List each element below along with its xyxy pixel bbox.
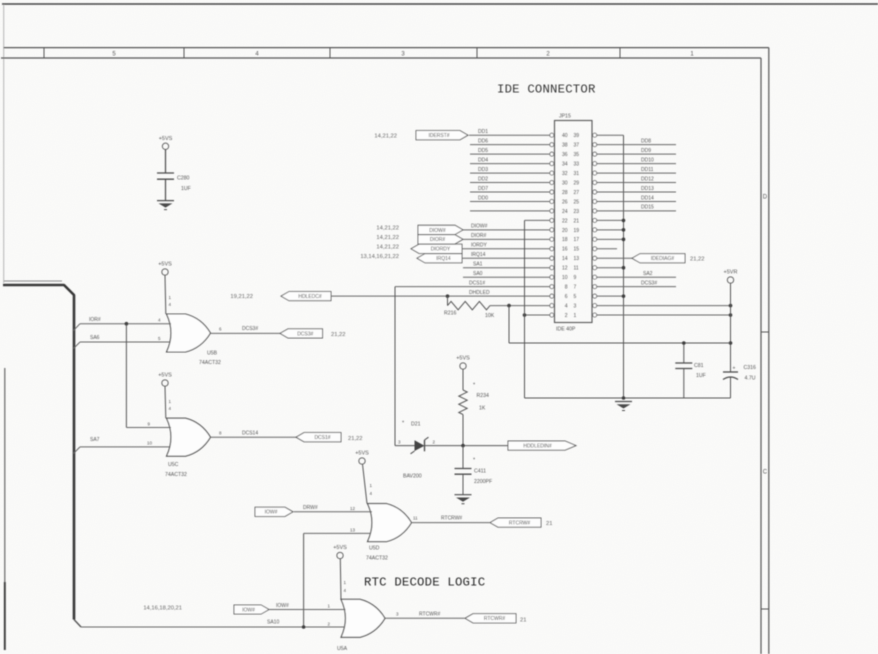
svg-text:DD9: DD9 [641, 148, 651, 154]
svg-text:+5VS: +5VS [456, 356, 470, 362]
svg-text:4: 4 [565, 303, 568, 309]
svg-text:29: 29 [574, 180, 580, 186]
svg-text:DHDLED: DHDLED [469, 290, 490, 296]
svg-text:DD8: DD8 [641, 138, 651, 144]
svg-text:11: 11 [413, 516, 418, 521]
svg-text:C: C [763, 470, 768, 476]
svg-text:RTC DECODE LOGIC: RTC DECODE LOGIC [364, 576, 485, 590]
svg-text:12: 12 [350, 506, 356, 511]
svg-text:IORDY: IORDY [471, 243, 488, 249]
svg-text:DD7: DD7 [478, 186, 488, 192]
svg-text:IDERST#: IDERST# [428, 133, 449, 139]
svg-text:25: 25 [574, 199, 580, 205]
svg-text:U5B: U5B [207, 351, 218, 357]
svg-text:21,22: 21,22 [331, 332, 346, 338]
svg-text:22: 22 [562, 218, 568, 224]
svg-text:1K: 1K [479, 406, 486, 412]
svg-text:HDDLEDIN#: HDDLEDIN# [523, 444, 552, 450]
svg-text:74ACT32: 74ACT32 [199, 360, 221, 366]
svg-text:C411: C411 [474, 469, 486, 475]
svg-text:RTCWR#: RTCWR# [484, 616, 506, 622]
svg-text:14,21,22: 14,21,22 [374, 134, 397, 140]
svg-text:DCS3#: DCS3# [641, 280, 657, 286]
svg-text:30: 30 [562, 180, 568, 186]
svg-text:31: 31 [574, 171, 580, 177]
svg-text:DIOW#: DIOW# [429, 228, 446, 234]
svg-text:+5VS: +5VS [158, 373, 172, 379]
svg-text:SA7: SA7 [90, 437, 100, 443]
svg-text:4.7U: 4.7U [745, 376, 756, 382]
svg-text:2200PF: 2200PF [474, 479, 492, 485]
svg-text:SA6: SA6 [90, 335, 100, 341]
svg-text:14,16,18,20,21: 14,16,18,20,21 [143, 606, 182, 612]
svg-text:IDE 40P: IDE 40P [556, 327, 576, 333]
svg-text:DD0: DD0 [478, 195, 488, 201]
svg-text:DCS14: DCS14 [242, 431, 258, 437]
svg-text:DD13: DD13 [641, 186, 654, 192]
svg-text:13: 13 [350, 528, 356, 533]
svg-text:14: 14 [562, 256, 568, 262]
svg-text:DCS1#: DCS1# [314, 435, 330, 441]
svg-text:13,14,16,21,22: 13,14,16,21,22 [360, 254, 399, 260]
svg-text:37: 37 [574, 143, 580, 149]
svg-text:RTCRW#: RTCRW# [509, 521, 530, 527]
svg-text:18: 18 [562, 237, 568, 243]
svg-text:+5VS: +5VS [355, 451, 369, 457]
svg-text:U5D: U5D [369, 546, 380, 552]
svg-text:12: 12 [562, 266, 568, 272]
svg-text:14,21,22: 14,21,22 [376, 235, 399, 241]
svg-text:17: 17 [574, 237, 580, 243]
svg-text:+: + [733, 366, 736, 372]
svg-text:74ACT32: 74ACT32 [366, 556, 388, 562]
svg-text:10K: 10K [485, 313, 495, 319]
svg-text:32: 32 [562, 171, 568, 177]
svg-text:23: 23 [574, 209, 580, 215]
svg-text:19: 19 [574, 228, 580, 234]
svg-text:21: 21 [520, 618, 526, 624]
svg-text:5: 5 [574, 294, 577, 300]
svg-text:14,21,22: 14,21,22 [376, 225, 399, 231]
svg-text:DD10: DD10 [641, 157, 654, 163]
svg-text:DCS1#: DCS1# [469, 280, 485, 286]
svg-text:16: 16 [562, 247, 568, 253]
svg-text:IOW#: IOW# [276, 603, 289, 609]
svg-text:IRQ14: IRQ14 [436, 256, 451, 262]
svg-text:26: 26 [562, 199, 568, 205]
svg-text:+5VS: +5VS [333, 545, 347, 551]
svg-text:13: 13 [574, 256, 580, 262]
svg-text:DD6: DD6 [478, 138, 488, 144]
svg-text:33: 33 [574, 161, 580, 167]
svg-text:HDLEDC#: HDLEDC# [298, 294, 322, 300]
svg-text:7: 7 [574, 285, 577, 291]
svg-text:DD15: DD15 [641, 205, 654, 211]
svg-text:40: 40 [562, 133, 568, 139]
svg-text:19,21,22: 19,21,22 [230, 294, 253, 300]
svg-text:21,22: 21,22 [690, 257, 705, 263]
svg-text:DCS3#: DCS3# [242, 326, 258, 332]
svg-text:C280: C280 [177, 176, 190, 182]
svg-text:28: 28 [562, 190, 568, 196]
svg-text:IDE CONNECTOR: IDE CONNECTOR [497, 83, 596, 97]
svg-text:IOW#: IOW# [265, 510, 278, 516]
svg-text:39: 39 [574, 133, 580, 139]
svg-text:27: 27 [574, 190, 580, 196]
svg-text:34: 34 [562, 161, 568, 167]
svg-text:38: 38 [562, 143, 568, 149]
svg-text:SA10: SA10 [267, 620, 279, 626]
svg-text:10: 10 [147, 441, 153, 446]
svg-text:DD5: DD5 [478, 148, 488, 154]
svg-text:DCS3#: DCS3# [297, 331, 313, 337]
svg-text:21: 21 [546, 521, 552, 527]
svg-text:10: 10 [562, 275, 568, 281]
svg-text:11: 11 [574, 266, 579, 272]
svg-text:9: 9 [574, 275, 577, 281]
svg-text:21: 21 [574, 218, 580, 224]
svg-text:DIOR#: DIOR# [430, 237, 446, 243]
svg-text:24: 24 [562, 209, 568, 215]
svg-text:DD2: DD2 [478, 176, 488, 182]
svg-text:35: 35 [574, 152, 580, 158]
svg-text:C316: C316 [744, 365, 757, 371]
svg-text:U5C: U5C [168, 462, 179, 468]
svg-text:+5VS: +5VS [158, 262, 172, 268]
svg-text:SA0: SA0 [473, 271, 483, 277]
svg-text:DD11: DD11 [641, 167, 654, 173]
svg-text:DD12: DD12 [641, 176, 654, 182]
svg-text:+5VS: +5VS [159, 136, 173, 142]
svg-text:DIOR#: DIOR# [471, 233, 487, 239]
svg-text:BAV200: BAV200 [403, 474, 422, 480]
svg-text:RTCWR#: RTCWR# [419, 612, 441, 618]
svg-text:8: 8 [565, 285, 568, 291]
svg-text:DD4: DD4 [478, 157, 488, 163]
svg-text:1: 1 [574, 313, 577, 319]
svg-text:D: D [763, 194, 768, 200]
svg-text:SA2: SA2 [643, 271, 653, 277]
svg-text:R234: R234 [477, 393, 490, 399]
svg-text:DD14: DD14 [641, 195, 654, 201]
svg-text:3: 3 [574, 303, 577, 309]
svg-text:RTCRW#: RTCRW# [441, 516, 462, 522]
svg-text:D21: D21 [411, 422, 421, 428]
svg-text:20: 20 [562, 228, 568, 234]
svg-text:DD1: DD1 [478, 129, 488, 135]
svg-text:14,21,22: 14,21,22 [376, 244, 399, 250]
svg-text:1UF: 1UF [696, 373, 706, 379]
svg-text:74ACT32: 74ACT32 [165, 472, 187, 478]
svg-text:U5A: U5A [337, 646, 348, 652]
svg-text:R216: R216 [444, 310, 457, 316]
svg-text:DIORDY: DIORDY [431, 247, 451, 253]
svg-text:6: 6 [565, 294, 568, 300]
svg-text:36: 36 [562, 152, 568, 158]
svg-text:SA1: SA1 [473, 262, 483, 268]
svg-text:JP15: JP15 [559, 114, 571, 120]
svg-text:+5VR: +5VR [724, 270, 738, 276]
svg-text:21,22: 21,22 [348, 436, 363, 442]
svg-text:DIOW#: DIOW# [471, 224, 488, 230]
svg-text:IOW#: IOW# [242, 607, 255, 613]
svg-text:IOR#: IOR# [89, 317, 101, 323]
svg-text:DRW#: DRW# [303, 505, 318, 511]
svg-text:IDEDIAG#: IDEDIAG# [651, 256, 675, 262]
svg-text:IRQ14: IRQ14 [471, 252, 486, 258]
svg-text:1UF: 1UF [181, 186, 191, 192]
svg-text:15: 15 [574, 247, 580, 253]
svg-text:C81: C81 [694, 363, 704, 369]
svg-text:DD3: DD3 [478, 167, 488, 173]
svg-text:2: 2 [565, 313, 568, 319]
